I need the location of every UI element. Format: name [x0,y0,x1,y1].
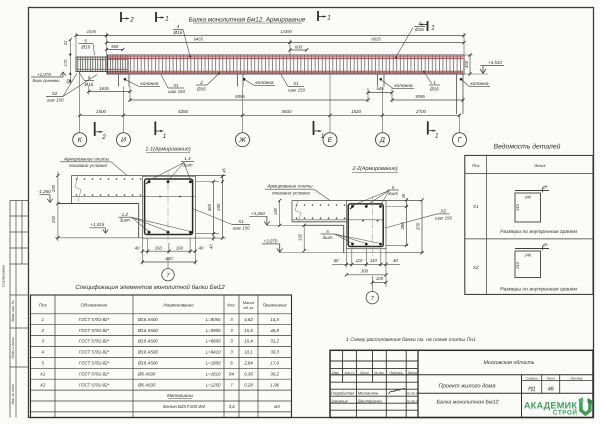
svg-text:365: 365 [207,203,212,211]
svg-text:40: 40 [334,258,339,263]
svg-text:160: 160 [176,246,184,251]
svg-text:Армирование плиты: Армирование плиты [266,184,313,189]
svg-text:1: 1 [321,133,325,140]
svg-text:200: 200 [51,184,56,193]
svg-text:6025: 6025 [371,36,381,41]
svg-text:30,2: 30,2 [270,371,279,376]
svg-text:Стадия: Стадия [526,376,538,380]
svg-text:5: 5 [392,185,395,190]
svg-text:№ док.: № док. [374,371,385,375]
svg-text:17,0: 17,0 [270,360,279,365]
svg-text:Ø16 А500: Ø16 А500 [137,317,158,322]
svg-text:2: 2 [101,134,106,141]
svg-text:Лист: Лист [359,371,369,375]
svg-text:2: 2 [40,328,44,333]
svg-text:Поз: Поз [472,163,479,168]
svg-text:60: 60 [65,79,70,84]
svg-text:2: 2 [199,80,203,85]
svg-text:Е: Е [328,137,333,144]
svg-text:1035: 1035 [87,29,97,34]
svg-text:L=6410: L=6410 [206,350,221,355]
svg-text:+3,510: +3,510 [488,60,502,65]
svg-text:СТРОЙ: СТРОЙ [553,409,578,417]
svg-text:ГОСТ 5781-82*: ГОСТ 5781-82* [79,350,110,355]
svg-text:3шт: 3шт [182,163,192,168]
svg-text:L=6600: L=6600 [206,339,221,344]
svg-text:Балка монолитная Бм12: Балка монолитная Бм12 [436,399,498,405]
svg-text:L=1250: L=1250 [206,382,221,387]
svg-text:Дата: Дата [407,371,417,375]
svg-text:48: 48 [548,387,554,393]
svg-text:м3: м3 [274,404,280,409]
svg-text:Эскиз: Эскиз [534,163,545,168]
svg-text:Инв. № подл.: Инв. № подл. [11,383,15,404]
svg-text:4: 4 [177,24,180,29]
svg-text:L=9055: L=9055 [206,317,221,322]
svg-text:+1,070: +1,070 [37,72,51,77]
svg-text:ГОСТ 5781-82*: ГОСТ 5781-82* [79,371,110,376]
svg-text:1,96: 1,96 [270,382,279,387]
svg-text:2,84: 2,84 [243,360,253,365]
svg-text:40: 40 [199,246,204,251]
svg-text:1: 1 [433,80,436,85]
svg-text:3шт: 3шт [322,235,332,240]
svg-text:160: 160 [155,246,163,251]
svg-text:Х1: Х1 [237,219,244,224]
svg-text:+3,260: +3,260 [251,211,265,216]
svg-text:Спецификация элементов монолит: Спецификация элементов монолитной балки … [75,284,225,291]
svg-text:Поз: Поз [39,303,47,308]
svg-text:340: 340 [524,195,531,200]
svg-text:1: 1 [165,16,169,23]
svg-text:Дмитриенко: Дмитриенко [357,399,383,404]
svg-text:Х1: Х1 [172,83,179,88]
svg-text:Размеры по внутренним граням: Размеры по внутренним граням [500,287,577,293]
svg-text:170: 170 [63,59,68,67]
svg-text:+3,070: +3,070 [264,238,278,243]
svg-text:3шт: 3шт [388,191,398,196]
svg-text:ГОСТ 5781-82*: ГОСТ 5781-82* [79,360,110,365]
svg-text:3600: 3600 [281,109,292,114]
svg-text:250: 250 [51,215,56,224]
svg-text:40: 40 [135,246,140,251]
svg-text:195: 195 [298,233,303,241]
svg-text:Ø16 А500: Ø16 А500 [137,360,158,365]
svg-text:105: 105 [376,276,384,281]
svg-text:Примечание: Примечание [263,303,288,308]
svg-text:1-1(Армирование): 1-1(Армирование) [145,147,190,153]
svg-text:12490: 12490 [280,29,292,34]
svg-text:шаг 150: шаг 150 [435,215,452,220]
svg-text:300: 300 [361,268,369,273]
svg-text:3095: 3095 [415,94,425,99]
svg-text:2-2(Армирование): 2-2(Армирование) [351,166,397,172]
svg-text:45: 45 [401,193,406,198]
svg-text:Ø16 А500: Ø16 А500 [137,339,158,344]
svg-text:240: 240 [523,253,531,258]
svg-text:22: 22 [63,40,68,46]
svg-text:Ø16: Ø16 [173,30,183,35]
svg-text:2700: 2700 [415,109,427,114]
svg-text:Ø6 А500: Ø6 А500 [137,382,156,387]
svg-text:310: 310 [515,203,520,210]
svg-text:Наименование: Наименование [163,303,194,308]
svg-text:Х2: Х2 [39,382,46,387]
svg-text:565: 565 [111,44,119,49]
svg-text:1820: 1820 [351,109,362,114]
svg-text:Х2: Х2 [51,91,58,96]
svg-text:ГОСТ 5781-82*: ГОСТ 5781-82* [79,339,110,344]
svg-text:1635: 1635 [99,86,109,91]
svg-text:5: 5 [84,38,87,43]
svg-text:Материалы: Материалы [167,393,194,398]
svg-text:4280: 4280 [178,109,189,114]
svg-text:16.05.22: 16.05.22 [406,400,419,404]
svg-text:4,62: 4,62 [244,317,253,322]
svg-text:L=1800: L=1800 [206,360,221,365]
svg-text:Московская область: Московская область [483,360,534,366]
svg-text:Ø16: Ø16 [196,87,206,92]
svg-text:Д: Д [379,137,385,144]
svg-text:Кол.уч: Кол.уч [345,371,355,375]
svg-text:0,36: 0,36 [244,371,253,376]
svg-text:Ø16: Ø16 [80,45,90,50]
svg-text:шаг 150: шаг 150 [47,98,64,103]
svg-text:110: 110 [356,258,363,263]
svg-text:Изм.: Изм. [332,371,339,375]
svg-text:3шт: 3шт [120,218,130,223]
svg-text:ГОСТ 5781-82*: ГОСТ 5781-82* [79,328,110,333]
svg-text:-1,260: -1,260 [38,189,51,194]
svg-text:5: 5 [326,229,329,234]
svg-text:шаг 150: шаг 150 [168,89,185,94]
svg-text:16.05.22: 16.05.22 [406,392,419,396]
svg-text:40: 40 [209,244,214,249]
svg-text:шаг 150: шаг 150 [288,88,305,93]
svg-text:0,28: 0,28 [244,382,253,387]
svg-text:180: 180 [273,207,278,215]
svg-text:Х1: Х1 [39,371,46,376]
svg-text:3: 3 [418,21,421,26]
svg-text:Разработал: Разработал [331,391,355,396]
svg-text:ГОСТ 5781-82*: ГОСТ 5781-82* [79,317,110,322]
svg-text:Размеры по внутренним граням: Размеры по внутренним граням [500,229,577,235]
svg-text:10,4: 10,4 [244,339,253,344]
svg-text:10,1: 10,1 [244,350,253,355]
svg-text:280: 280 [400,222,405,231]
svg-text:Листов: Листов [569,376,582,380]
svg-text:Подп. и дата: Подп. и дата [11,337,15,358]
svg-text:Армирование плиты: Армирование плиты [63,156,110,161]
svg-text:600: 600 [295,44,303,49]
svg-text:Ведомость деталей: Ведомость деталей [494,142,561,150]
svg-text:1: 1 [431,25,435,32]
svg-text:Москвичев: Москвичев [358,391,378,396]
svg-text:Ж: Ж [238,137,246,144]
svg-text:31,2: 31,2 [270,339,279,344]
svg-text:40: 40 [393,258,398,263]
svg-text:Х2: Х2 [439,209,446,214]
svg-text:1,2: 1,2 [122,212,129,217]
svg-text:Х2: Х2 [472,265,479,270]
svg-text:шаг 150: шаг 150 [233,226,250,231]
svg-text:1: 1 [435,133,439,140]
svg-text:370: 370 [415,222,420,230]
svg-text:Х1: Х1 [292,81,299,86]
svg-text:45: 45 [222,168,227,173]
svg-text:545: 545 [376,86,384,91]
svg-text:1 Схему расположения балки см.: 1 Схему расположения балки см. на плане … [346,337,476,343]
svg-text:Ø16: Ø16 [429,87,439,92]
svg-text:2: 2 [129,17,134,24]
svg-text:450: 450 [464,60,469,68]
svg-text:1500: 1500 [96,109,107,114]
svg-text:Взам. инв. №: Взам. инв. № [11,300,15,321]
svg-text:46,8: 46,8 [270,328,279,333]
svg-text:Заказчик: Заказчик [331,399,349,404]
svg-text:Ø16: Ø16 [414,27,424,32]
svg-text:14,5: 14,5 [270,317,279,322]
svg-text:показано условно: показано условно [69,163,107,168]
svg-text:+1,015: +1,015 [90,222,104,227]
svg-text:Кол.: Кол. [227,303,235,308]
svg-text:Подпись: Подпись [389,371,403,375]
svg-text:Масса: Масса [243,301,254,305]
svg-text:ГОСТ 5781-82*: ГОСТ 5781-82* [79,382,110,387]
svg-text:РД: РД [528,387,535,393]
svg-text:Обозначение: Обозначение [81,303,108,308]
svg-text:Х1: Х1 [472,204,479,209]
svg-text:1,4: 1,4 [184,156,191,161]
svg-text:Верх проемки: Верх проемки [33,78,61,83]
svg-text:Согласовано: Согласовано [2,265,6,287]
svg-text:84: 84 [229,371,234,376]
svg-text:Ø16 А500: Ø16 А500 [137,350,158,355]
svg-text:30,3: 30,3 [270,350,279,355]
svg-text:400: 400 [165,256,173,261]
svg-text:9395: 9395 [235,94,245,99]
svg-text:Ø6 А500: Ø6 А500 [137,371,156,376]
svg-text:1: 1 [327,15,331,22]
svg-text:L=1610: L=1610 [206,371,221,376]
svg-text:3,4: 3,4 [228,404,235,409]
svg-text:показано условно: показано условно [272,190,310,195]
svg-text:450: 450 [216,203,221,211]
svg-text:Лист: Лист [546,376,556,380]
svg-text:110: 110 [370,258,377,263]
svg-text:Бетон В25 F100 W4: Бетон В25 F100 W4 [163,404,205,409]
svg-text:6465: 6465 [194,36,204,41]
svg-text:310: 310 [515,261,520,268]
svg-text:15,6: 15,6 [244,328,253,333]
svg-text:Проект жилого дома: Проект жилого дома [439,383,496,390]
svg-text:Ø16 А500: Ø16 А500 [137,328,158,333]
svg-text:Балка монолитная Бм12. Армиров: Балка монолитная Бм12. Армирование [189,17,306,24]
svg-text:L=9900: L=9900 [206,328,221,333]
svg-text:1: 1 [163,133,167,140]
svg-text:ед.,кг: ед.,кг [244,306,254,310]
